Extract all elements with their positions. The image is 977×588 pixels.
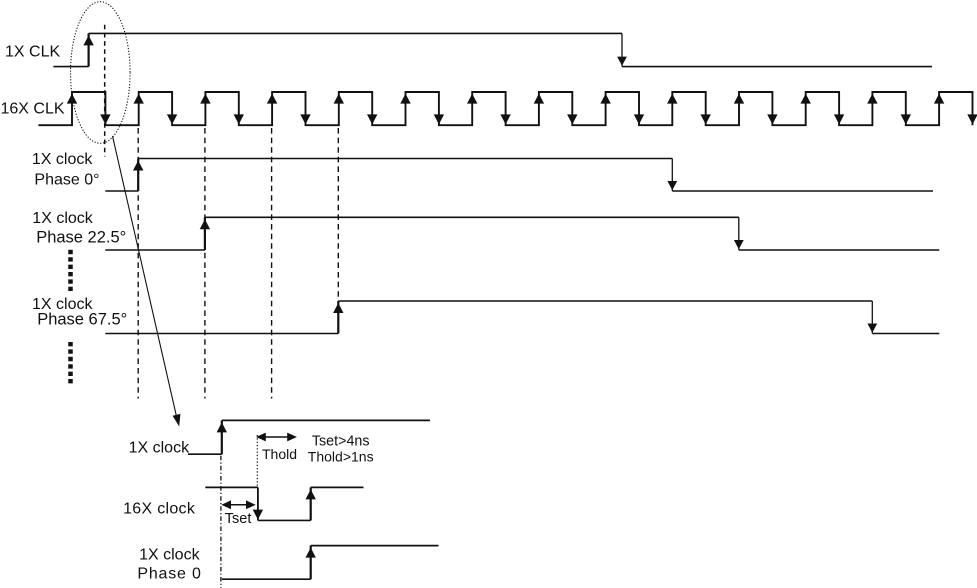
arrow 1X CLK falling-edge down arrowhead [617, 57, 627, 66]
dashed marker line at phase0 rise [137, 128, 139, 399]
arrow detail 1X clock rising arrowhead [217, 422, 227, 432]
svg-text:16X CLK: 16X CLK [1, 100, 65, 117]
arrow detail 16X falling arrowhead [253, 510, 263, 520]
arrow 1X CLK rising-edge up arrowhead [83, 35, 93, 45]
svg-text:Thold>1ns: Thold>1ns [308, 449, 374, 465]
svg-text:Phase 22.5°: Phase 22.5° [36, 228, 126, 246]
wire 1X CLK low segment / rising edge / high segment / falling edge [53, 33, 932, 66]
wire Phase 0 clock low segment / rising edge / high segment / falling edge [105, 159, 933, 192]
dash-dot reference line through detail edges [220, 456, 222, 588]
svg-text:16X clock: 16X clock [123, 501, 196, 518]
wire Phase 67.5 clock low segment / rising edge / high segment / falling edge [105, 301, 939, 334]
wire 16X CLK waveform [38, 92, 972, 125]
arrow Phase 22.5 clock falling-edge down arrowhead [734, 240, 744, 249]
arrow Thold measurement double arrow [257, 433, 295, 440]
svg-text:1X CLK: 1X CLK [5, 43, 60, 60]
svg-text:Thold: Thold [262, 446, 297, 462]
ellipsis dots below phase 67.5 [68, 342, 73, 383]
arrow Tset measurement double arrow [223, 501, 255, 508]
wire Phase 22.5 clock low segment / rising edge / high segment / falling edge [105, 217, 939, 250]
wire detail 16X clock waveform [205, 487, 363, 520]
arrow Phase 67.5 clock falling-edge down arrowhead [867, 324, 877, 333]
svg-text:Phase 67.5°: Phase 67.5° [37, 311, 127, 329]
dashed marker line at phase45 rise [271, 128, 273, 399]
arrow Phase 0 clock falling-edge down arrowhead [667, 181, 677, 190]
svg-text:Tset: Tset [225, 511, 252, 527]
zoom pointer line from ellipse to detail view [113, 136, 178, 420]
dashed sample line at 16X falling edge [104, 25, 106, 157]
dotted Thold reference line [256, 435, 258, 487]
arrow Phase 22.5 clock rising-edge up arrowhead [200, 219, 210, 229]
svg-text:1X clock: 1X clock [129, 440, 190, 457]
dashed marker line at phase67.5 rise [337, 128, 339, 301]
svg-text:1X clock: 1X clock [32, 210, 93, 227]
arrow 16X CLK edge arrowheads [67, 94, 977, 125]
arrow zoom pointer arrowhead [173, 414, 181, 427]
svg-text:Tset>4ns: Tset>4ns [312, 434, 370, 450]
svg-text:1X clock: 1X clock [139, 547, 200, 564]
arrow detail 16X rising arrowhead [306, 489, 316, 499]
svg-text:Phase 0: Phase 0 [137, 566, 201, 583]
arrow Phase 0 clock rising-edge up arrowhead [133, 161, 143, 171]
arrow Phase 67.5 clock rising-edge up arrowhead [333, 303, 343, 313]
svg-text:Phase 0°: Phase 0° [34, 171, 99, 188]
svg-text:1X clock: 1X clock [32, 151, 93, 168]
arrow detail Phase 0 rising arrowhead [306, 548, 316, 558]
wire detail 1X clock Phase 0 waveform [222, 546, 439, 580]
sampling-point highlight ellipse [71, 2, 131, 144]
ellipsis dots between phase waveforms [68, 250, 73, 291]
wire detail 1X clock waveform [188, 420, 430, 454]
dashed marker line at phase22.5 rise [204, 128, 206, 399]
